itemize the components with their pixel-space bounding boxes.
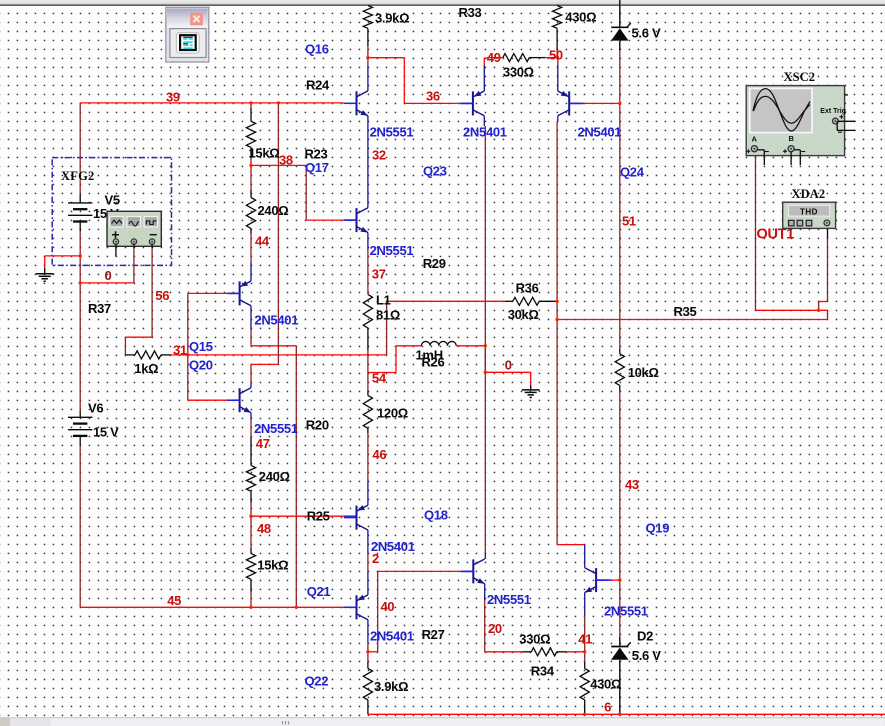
inductor L1 1mH <box>421 341 456 345</box>
resistor 330ohm top (between 49 and 50) <box>486 57 503 59</box>
resistor R33 3.9kohm top <box>363 6 372 29</box>
svg-text:40: 40 <box>381 599 395 614</box>
svg-text:48: 48 <box>257 521 271 536</box>
net 37 wire <box>367 233 369 251</box>
Q16 emitter to Q17 collector <box>367 116 369 208</box>
svg-text:Q18: Q18 <box>424 508 448 523</box>
svg-text:2N5551: 2N5551 <box>254 421 298 436</box>
svg-text:20: 20 <box>488 621 502 636</box>
resistor R34 330ohm <box>485 651 523 653</box>
net 54 junction and jog to L1 <box>368 372 396 374</box>
XFG2 common wire <box>133 244 135 248</box>
svg-text:430Ω: 430Ω <box>565 10 596 25</box>
junction net 0 left <box>79 281 82 284</box>
ground at left <box>45 255 80 257</box>
svg-text:41: 41 <box>578 632 592 647</box>
svg-text:49: 49 <box>487 50 501 65</box>
svg-text:Q22: Q22 <box>305 674 329 689</box>
window chrome top bar <box>0 0 885 2</box>
svg-text:Ext Trig: Ext Trig <box>820 108 846 115</box>
net 40 wire <box>367 620 369 643</box>
svg-text:330Ω: 330Ω <box>503 65 534 80</box>
junction net 45 left <box>249 606 252 609</box>
junction L1 output <box>484 344 487 347</box>
svg-text:30kΩ: 30kΩ <box>508 307 539 322</box>
svg-text:R25: R25 <box>307 509 330 524</box>
svg-text:15kΩ: 15kΩ <box>257 558 288 573</box>
svg-text:R35: R35 <box>674 304 697 319</box>
svg-text:56: 56 <box>155 288 169 303</box>
resistor R24 15kohm <box>246 121 255 147</box>
svg-text:Q20: Q20 <box>189 358 213 373</box>
Q24 emitter to net 50 <box>557 58 559 65</box>
svg-text:0: 0 <box>505 358 512 373</box>
junction net 40 <box>366 650 369 653</box>
bottom rail net 6 <box>368 713 885 715</box>
resistor 10kohm <box>615 354 624 386</box>
svg-text:Q15: Q15 <box>189 339 213 354</box>
svg-text:2N5401: 2N5401 <box>254 313 298 328</box>
XFG2 function generator panel <box>107 211 161 246</box>
transistor Q25 2N5551 (mirrored) <box>595 568 597 592</box>
net to Q23 base <box>368 57 404 59</box>
resistor R23 240ohm <box>250 165 252 190</box>
svg-text:6: 6 <box>604 700 611 715</box>
resistor R29 81ohm <box>363 294 372 328</box>
svg-text:D2: D2 <box>637 629 653 644</box>
resistor R25 15kohm <box>250 516 252 548</box>
svg-text:Q16: Q16 <box>305 42 329 57</box>
svg-text:39: 39 <box>166 90 180 105</box>
svg-text:0: 0 <box>105 268 112 283</box>
svg-text:B: B <box>789 134 795 143</box>
svg-text:1kΩ: 1kΩ <box>134 361 158 376</box>
transistor Q21 2N5401 <box>356 595 358 619</box>
junction net 50 <box>556 56 559 59</box>
svg-text:120Ω: 120Ω <box>377 406 408 421</box>
svg-text:XSC2: XSC2 <box>784 70 816 84</box>
transistor Q24 2N5401 (mirrored) <box>568 91 570 115</box>
svg-text:A: A <box>752 135 758 144</box>
junction net 43 base <box>618 578 621 581</box>
svg-text:15 V: 15 V <box>93 425 119 440</box>
svg-text:81Ω: 81Ω <box>376 308 400 323</box>
transistor Q20 2N5551 <box>239 388 241 412</box>
svg-text:2N5401: 2N5401 <box>578 125 622 140</box>
junction net above Q16 <box>366 56 369 59</box>
Q20 emitter chain <box>250 413 252 419</box>
junction net 39 right <box>277 101 280 104</box>
svg-text:32: 32 <box>372 148 386 163</box>
svg-text:36: 36 <box>426 89 440 104</box>
svg-text:R29: R29 <box>423 256 446 271</box>
Q18 collector to Q21 emitter <box>367 530 369 554</box>
svg-text:44: 44 <box>255 234 270 249</box>
net 46 wire <box>367 433 369 481</box>
left chain 15k/240 resistors top <box>250 103 252 108</box>
resistor R20 240ohm <box>246 465 255 491</box>
svg-text:2: 2 <box>372 551 379 566</box>
XFG2 instrument box <box>52 158 171 266</box>
svg-text:430Ω: 430Ω <box>590 677 621 692</box>
net 41 wire <box>584 593 586 617</box>
junction net R35 <box>555 318 558 321</box>
transistor Q15 2N5401 <box>239 281 241 305</box>
resistor R36 30kohm <box>387 300 505 302</box>
svg-text:V6: V6 <box>88 401 103 416</box>
transistor Q18 2N5401 <box>356 506 358 530</box>
transistor Q23 2N5401 <box>472 91 474 115</box>
net 44 wire <box>250 234 252 263</box>
svg-text:2N5401: 2N5401 <box>370 629 414 644</box>
svg-text:R36: R36 <box>516 281 539 296</box>
svg-text:5.6 V: 5.6 V <box>632 648 661 663</box>
XFG2 terminals <box>113 239 118 244</box>
svg-text:R33: R33 <box>459 5 482 20</box>
resistor R26 120ohm <box>367 373 369 392</box>
svg-text:5.6 V: 5.6 V <box>632 26 661 41</box>
svg-text:240Ω: 240Ω <box>259 469 290 484</box>
XSC2 A channel wire <box>755 153 757 311</box>
svg-text:3.9kΩ: 3.9kΩ <box>375 11 409 26</box>
svg-text:Q23: Q23 <box>423 164 447 179</box>
Q23 emitter to net 49 <box>483 58 485 65</box>
junction net 41 <box>583 650 586 653</box>
svg-text:R37: R37 <box>88 301 111 316</box>
floating toolbar window <box>166 7 209 62</box>
svg-text:R34: R34 <box>531 664 555 679</box>
svg-text:R26: R26 <box>422 355 445 370</box>
XFG2 + stub <box>115 244 117 256</box>
bottom scrollbar <box>0 718 885 726</box>
svg-text:L1: L1 <box>376 293 391 308</box>
svg-text:240Ω: 240Ω <box>258 203 289 218</box>
svg-text:45: 45 <box>167 593 181 608</box>
svg-text:2N5551: 2N5551 <box>370 125 414 140</box>
transistor Q16 2N5551 <box>356 91 358 115</box>
net 48 wire to Q18 <box>251 515 344 517</box>
net 31 wires <box>188 354 387 356</box>
svg-text:15kΩ: 15kΩ <box>249 146 280 161</box>
battery V6 <box>68 416 92 418</box>
transistor Q17 2N5551 <box>356 208 358 232</box>
resistor R37 1kohm <box>125 354 134 356</box>
net 51 rail <box>619 50 621 103</box>
junction Q24 base net 51 <box>618 102 621 105</box>
Q24 collector rail down <box>557 116 559 122</box>
junction net 39 / R24 <box>249 101 252 104</box>
svg-text:2N5551: 2N5551 <box>487 592 531 607</box>
resistor R33b 430ohm top right <box>553 6 562 29</box>
junction net 6 right <box>618 713 621 716</box>
Q20 collector to net39 jog <box>250 383 252 388</box>
svg-text:THD: THD <box>800 207 818 216</box>
svg-text:Q19: Q19 <box>646 521 670 536</box>
svg-text:43: 43 <box>625 477 639 492</box>
svg-text:Q17: Q17 <box>305 160 329 175</box>
resistor 430ohm bottom <box>584 652 586 662</box>
jog to lower right transistor <box>557 544 585 546</box>
svg-text:54: 54 <box>372 371 387 386</box>
svg-text:46: 46 <box>372 447 386 462</box>
resistor R27 3.9kohm bottom <box>367 652 369 662</box>
zener D1 5.6V <box>619 0 621 27</box>
zener D2 5.6V <box>619 637 621 647</box>
svg-text:XDA2: XDA2 <box>792 187 826 201</box>
svg-text:10kΩ: 10kΩ <box>628 365 659 380</box>
svg-text:2N5551: 2N5551 <box>370 243 414 258</box>
junction net 6 left <box>583 713 586 716</box>
net R35 output wire <box>557 319 827 321</box>
net 0 ground branch near L1 <box>484 346 486 373</box>
svg-text:31: 31 <box>173 343 187 358</box>
junction net 45 right <box>295 606 298 609</box>
wire left rail x=80 <box>79 103 81 194</box>
junction net 31 <box>186 353 189 356</box>
svg-text:R24: R24 <box>306 78 330 93</box>
Q15 collector jog <box>250 306 252 330</box>
battery V5 <box>68 202 92 204</box>
junction ground tap <box>79 254 82 257</box>
svg-text:R20: R20 <box>306 418 329 433</box>
net 2 wire to Q19 base <box>378 570 461 572</box>
svg-text:51: 51 <box>622 214 636 229</box>
Q23 collector rail <box>483 116 485 126</box>
svg-text:330Ω: 330Ω <box>519 632 550 647</box>
junction R36 output <box>555 300 558 303</box>
net 20 wire <box>484 584 486 600</box>
net 45 wire <box>80 606 344 608</box>
XDA2 wire <box>827 226 829 238</box>
svg-text:38: 38 <box>279 153 293 168</box>
svg-text:XFG2: XFG2 <box>61 169 94 183</box>
svg-text:R27: R27 <box>422 627 445 642</box>
junction net 38 <box>249 164 252 167</box>
svg-text:47: 47 <box>256 436 270 451</box>
svg-text:3.9kΩ: 3.9kΩ <box>374 679 408 694</box>
svg-text:Q24: Q24 <box>620 165 645 180</box>
wire net 39 <box>80 102 344 104</box>
transistor Q19 2N5551 <box>472 559 474 583</box>
svg-text:2N5551: 2N5551 <box>604 604 648 619</box>
svg-text:37: 37 <box>372 267 386 282</box>
XFG2 minus wire net 56 <box>151 244 153 248</box>
junction net 48 <box>249 515 252 518</box>
junction net 0 right <box>484 371 487 374</box>
net 38 wire <box>251 164 306 166</box>
svg-text:2N5401: 2N5401 <box>463 125 507 140</box>
svg-text:50: 50 <box>549 48 563 63</box>
svg-text:Q21: Q21 <box>307 584 331 599</box>
junction scope A tap <box>817 309 820 312</box>
